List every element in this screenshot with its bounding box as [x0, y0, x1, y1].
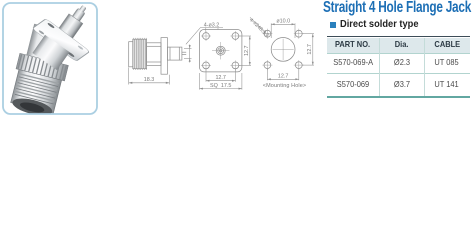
ø3.2 diagonal label: [250, 17, 267, 34]
dark interface end: [11, 95, 54, 119]
photo: connector rendering: [4, 0, 110, 120]
svg-text:SQ 17.5: SQ 17.5: [210, 83, 231, 89]
product photo frame: [0, 0, 474, 127]
svg-text:18.3: 18.3: [144, 77, 155, 83]
knurl hatch: [135, 39, 146, 68]
short neck under flange: [32, 35, 69, 70]
solder pot: [59, 14, 83, 38]
svg-text:ø10.0: ø10.0: [276, 19, 290, 25]
right dim of square view: [239, 36, 251, 65]
right small dim + leader: [184, 28, 201, 63]
photo frame border: [3, 3, 97, 114]
dims below square view: [200, 69, 242, 90]
upper flange/pin group (tilted): [21, 0, 110, 79]
bottom 12.7 dim: [267, 69, 298, 80]
lower barrel group (nearly vertical): [6, 22, 76, 119]
svg-text:12.7: 12.7: [278, 74, 289, 80]
body cylinder: [147, 43, 161, 66]
svg-text:4-4-ø3.2#248;3.2: 4-4-ø3.2#248;3.2: [248, 17, 270, 38]
pin: [71, 8, 86, 24]
right column: [323, 0, 471, 17]
ø10.0 top dim: [271, 23, 295, 38]
flange (side): [161, 38, 167, 75]
pin: [182, 51, 186, 53]
svg-text:12.7: 12.7: [244, 45, 250, 56]
threaded barrel: [11, 70, 62, 114]
right 12.7 dim: [302, 34, 314, 65]
nut rear ring: [129, 42, 133, 67]
knurled nut: [133, 39, 147, 68]
solder pot: [167, 47, 182, 60]
hole center marks: [201, 31, 240, 70]
knurled ring: [16, 53, 68, 81]
svg-text:<Mounting Hole>: <Mounting Hole>: [263, 83, 306, 89]
18.3 dimension: [129, 68, 170, 85]
knurl teeth top/bottom: [134, 38, 147, 70]
flange plate (squashed rotated square): [32, 19, 90, 62]
svg-text:12.7: 12.7: [215, 75, 226, 81]
svg-text:12.7: 12.7: [307, 44, 313, 55]
smooth upper body: [26, 24, 70, 68]
